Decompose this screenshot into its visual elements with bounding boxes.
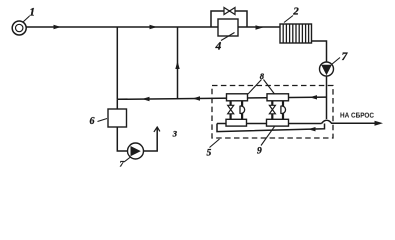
svg-text:2: 2 <box>292 5 299 17</box>
svg-text:6: 6 <box>89 116 94 127</box>
svg-text:4: 4 <box>214 40 221 52</box>
svg-text:НА СБРОС: НА СБРОС <box>340 113 374 120</box>
svg-text:1: 1 <box>29 7 35 19</box>
svg-text:3: 3 <box>172 128 178 138</box>
svg-text:5: 5 <box>206 148 211 158</box>
svg-text:9: 9 <box>257 147 262 157</box>
